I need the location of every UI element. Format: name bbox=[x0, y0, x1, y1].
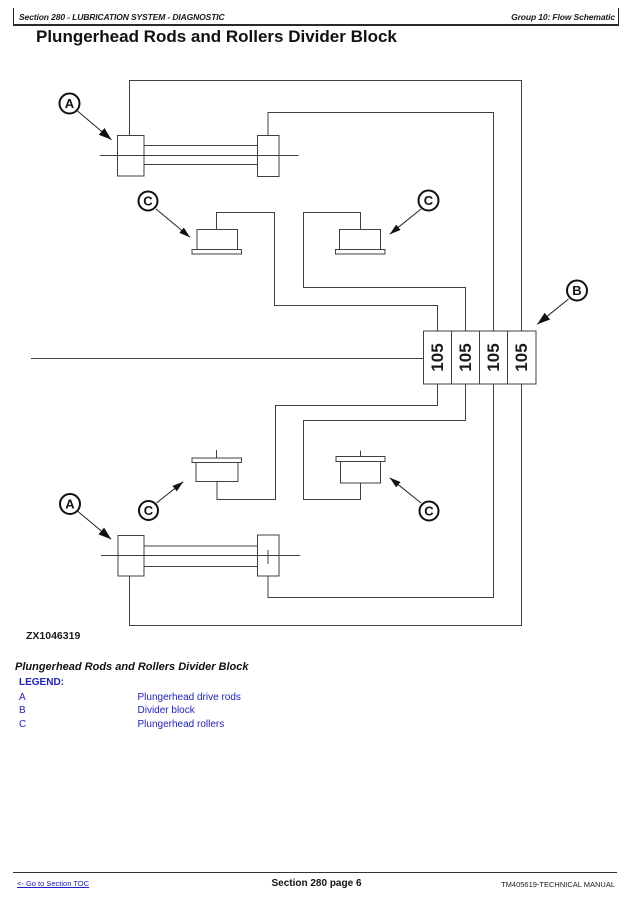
svg-text:105: 105 bbox=[484, 343, 503, 371]
svg-text:C: C bbox=[424, 193, 434, 208]
svg-text:A: A bbox=[65, 497, 75, 512]
svg-text:105: 105 bbox=[512, 343, 531, 371]
svg-text:C: C bbox=[144, 503, 154, 518]
svg-text:105: 105 bbox=[456, 343, 475, 371]
svg-text:C: C bbox=[143, 194, 153, 209]
svg-text:C: C bbox=[424, 504, 434, 519]
svg-text:105: 105 bbox=[428, 343, 447, 371]
svg-text:A: A bbox=[65, 96, 75, 111]
svg-text:B: B bbox=[572, 283, 581, 298]
